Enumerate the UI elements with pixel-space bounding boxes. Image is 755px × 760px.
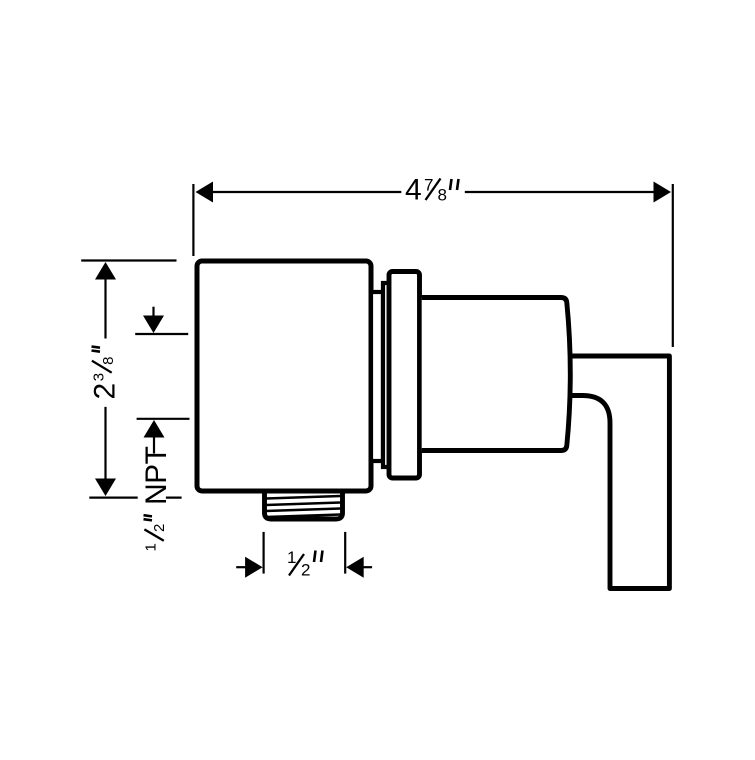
dimension 1/2 inch: right extension line bbox=[344, 532, 346, 574]
hub step plate 2 bbox=[383, 283, 389, 467]
dimension 1/2 inch: right tail line bbox=[361, 566, 372, 568]
dimension 2 3/8 inch: bottom extension line left part bbox=[89, 497, 137, 499]
dimension 2 3/8 inch: top arrowhead bbox=[95, 262, 116, 280]
hub step plate 1 bbox=[371, 292, 383, 461]
dimension 1/2 NPT: bottom tick bbox=[137, 418, 190, 420]
sleeve flange bbox=[389, 272, 420, 479]
dimension 2 3/8 inch: bottom extension line right part bbox=[166, 497, 182, 499]
svg-text:8: 8 bbox=[438, 186, 447, 205]
svg-text:2: 2 bbox=[151, 524, 168, 532]
svg-text:2: 2 bbox=[301, 561, 310, 580]
dimension 4 7/8 inch: left arrowhead bbox=[196, 182, 214, 203]
valve body escutcheon (main rectangle) bbox=[197, 261, 371, 491]
dimension 1/2 inch: left tail line bbox=[236, 566, 248, 568]
dimension 1/2 inch: left arrowhead (right pointing) bbox=[245, 557, 263, 578]
dimension 1/2 NPT: lower arrowhead (up) bbox=[144, 420, 165, 438]
dimension 2 3/8 inch: line upper segment bbox=[104, 278, 106, 339]
dimension 4 7/8 inch: right extension line bbox=[672, 184, 674, 347]
threaded nipple 1/2 NPT outlet bbox=[265, 491, 343, 519]
lever handle bbox=[566, 356, 669, 589]
svg-text:NPT: NPT bbox=[140, 446, 173, 505]
dimension 1/2 inch: label bbox=[287, 548, 323, 580]
svg-text:4: 4 bbox=[405, 174, 422, 207]
dimension 1/2 NPT: upper stub line bbox=[152, 307, 154, 318]
dimension 4 7/8 inch: left extension line bbox=[192, 184, 194, 256]
dimension 1/2 inch: right arrowhead (left pointing) bbox=[346, 557, 364, 578]
thread line 1 bbox=[266, 496, 341, 499]
handle hub cylinder bbox=[422, 298, 571, 451]
dimension 4 7/8 inch: line right segment bbox=[465, 191, 656, 193]
dimension 2 3/8 inch: top extension line bbox=[81, 259, 176, 261]
svg-text:1: 1 bbox=[287, 548, 296, 567]
dimension 1/2 NPT: top tick bbox=[135, 333, 188, 335]
dimension 1/2 inch: left extension line bbox=[263, 532, 265, 574]
svg-text:3: 3 bbox=[91, 373, 108, 381]
thread line 2 bbox=[266, 503, 341, 506]
svg-text:2: 2 bbox=[89, 383, 122, 400]
thread line 3 bbox=[266, 509, 341, 512]
dimension 4 7/8 inch: right arrowhead bbox=[654, 182, 672, 203]
dimension 1/2 NPT: upper arrowhead (down) bbox=[143, 316, 164, 334]
dimension 4 7/8 inch: line left segment bbox=[210, 191, 401, 193]
dimension 4 7/8 inch: label bbox=[405, 174, 459, 207]
dimension 1/2 NPT: lower stub line bbox=[153, 437, 155, 454]
dimension 2 3/8 inch: line lower segment bbox=[104, 407, 106, 480]
svg-text:1: 1 bbox=[143, 543, 160, 551]
thread line 4 bbox=[266, 515, 341, 518]
svg-text:8: 8 bbox=[100, 356, 117, 364]
dimension 2 3/8 inch: bottom arrowhead bbox=[95, 479, 116, 497]
dimension 2 3/8 inch: label (rotated) bbox=[89, 347, 122, 400]
dimension 1/2 NPT: label (rotated) bbox=[140, 446, 173, 551]
